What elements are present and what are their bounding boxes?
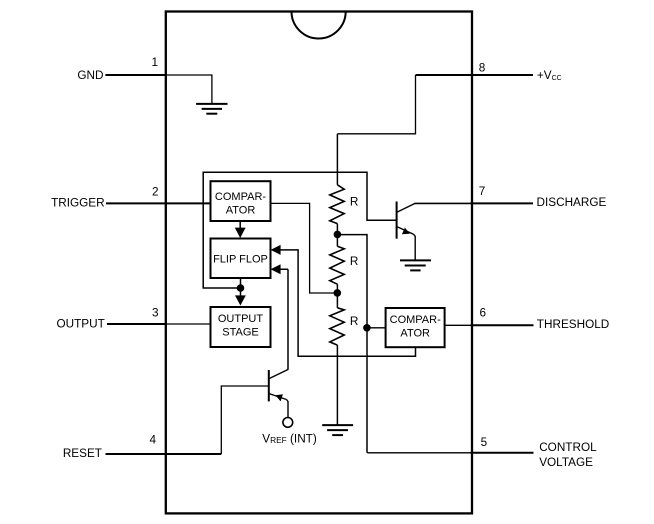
arrowhead flip flop to output stage bbox=[235, 278, 246, 306]
wire pin 7 DISCHARGE lead bbox=[415, 202, 472, 204]
svg-text:1: 1 bbox=[151, 56, 158, 69]
arrowhead reset path into flip flop bbox=[271, 264, 281, 274]
svg-text:FLIP FLOP: FLIP FLOP bbox=[213, 254, 268, 266]
svg-text:GND: GND bbox=[77, 69, 103, 82]
resistor R (top) bbox=[330, 185, 344, 224]
wire reset transistor collector to flip flop bbox=[280, 269, 289, 370]
svg-text:THRESHOLD: THRESHOLD bbox=[537, 318, 609, 331]
wire comparator 2 output to flip flop bbox=[280, 250, 416, 356]
svg-text:COMPAR-: COMPAR- bbox=[215, 191, 266, 203]
wire pin 8 internal to divider top bbox=[337, 75, 415, 134]
wire pin 8 VCC lead bbox=[416, 74, 534, 76]
resistor R (bottom) bbox=[330, 308, 344, 345]
transistor Q1 (discharge, NPN) bbox=[397, 202, 416, 261]
svg-text:STAGE: STAGE bbox=[222, 327, 258, 339]
node divider upper tap (junction dot) bbox=[334, 231, 342, 239]
svg-text:OUTPUT: OUTPUT bbox=[56, 318, 104, 331]
wire pin 4 RESET lead bbox=[106, 453, 222, 455]
wire flip flop output to discharge transistor base bbox=[203, 172, 396, 288]
svg-text:COMPAR-: COMPAR- bbox=[390, 314, 441, 326]
wire pin 3 internal to output stage bbox=[165, 323, 210, 325]
node comparator 2 reference input (junction dot) bbox=[363, 324, 371, 332]
svg-text:CONTROL: CONTROL bbox=[539, 441, 597, 454]
ground symbol (divider) bbox=[322, 425, 353, 435]
svg-text:6: 6 bbox=[480, 306, 487, 319]
op-amp comparator U1A (trigger comparator) box bbox=[211, 181, 271, 221]
node flip flop output (junction dot) bbox=[237, 284, 245, 292]
svg-text:ATOR: ATOR bbox=[400, 328, 430, 340]
flip flop U2 box bbox=[211, 239, 271, 279]
svg-text:DISCHARGE: DISCHARGE bbox=[537, 196, 607, 209]
wire pin 5 CONTROL VOLTAGE lead bbox=[367, 452, 471, 454]
arrowhead comparator 2 output into flip flop bbox=[271, 245, 281, 255]
svg-text:OUTPUT: OUTPUT bbox=[218, 313, 264, 325]
svg-text:3: 3 bbox=[152, 307, 159, 320]
wire control voltage line bbox=[337, 235, 367, 453]
svg-text:5: 5 bbox=[481, 436, 488, 449]
svg-text:ATOR: ATOR bbox=[226, 205, 256, 217]
svg-text:7: 7 bbox=[479, 185, 486, 198]
wire pin 6 THRESHOLD lead bbox=[445, 324, 472, 326]
svg-text:TRIGGER: TRIGGER bbox=[51, 196, 105, 209]
svg-text:R: R bbox=[350, 315, 359, 328]
svg-text:2: 2 bbox=[152, 185, 159, 198]
arrowhead Q1 emitter (NPN) bbox=[402, 228, 410, 235]
node divider lower tap (junction dot) bbox=[334, 289, 342, 297]
wire voltage divider chain bbox=[336, 134, 338, 425]
output stage U3 box bbox=[211, 307, 271, 347]
op-amp comparator U1B (threshold comparator) box bbox=[386, 308, 445, 347]
terminal VREF circle bbox=[283, 418, 293, 428]
svg-text:R: R bbox=[350, 255, 359, 268]
ground symbol (pin 1) bbox=[196, 104, 227, 114]
IC package outline U1 bbox=[166, 12, 472, 514]
wire pin 1 internal to ground bbox=[165, 75, 212, 104]
transistor Q2 (reset, PNP) bbox=[269, 370, 288, 418]
wire comparator 1 reference input from lower tap bbox=[271, 203, 338, 293]
resistor R (middle) bbox=[330, 246, 344, 284]
svg-text:R: R bbox=[350, 196, 359, 209]
arrowhead comparator 1 to flip flop bbox=[235, 221, 246, 238]
arrowhead Q2 emitter (PNP) bbox=[276, 394, 283, 401]
wire pin 2 TRIGGER lead bbox=[106, 202, 211, 204]
wire pin 4 internal to reset transistor base bbox=[221, 386, 268, 454]
svg-text:VREF (INT): VREF (INT) bbox=[262, 433, 317, 446]
svg-text:RESET: RESET bbox=[63, 447, 102, 460]
svg-text:8: 8 bbox=[479, 61, 486, 74]
wire pin 3 OUTPUT lead bbox=[107, 323, 165, 325]
wire pin 1 GND lead bbox=[105, 74, 165, 76]
wire comparator 2 input stub bbox=[367, 327, 386, 329]
IC pin-1 notch bbox=[292, 11, 346, 38]
svg-text:VOLTAGE: VOLTAGE bbox=[539, 456, 593, 469]
svg-text:4: 4 bbox=[149, 433, 156, 446]
ground symbol (Q1 emitter) bbox=[400, 260, 431, 270]
